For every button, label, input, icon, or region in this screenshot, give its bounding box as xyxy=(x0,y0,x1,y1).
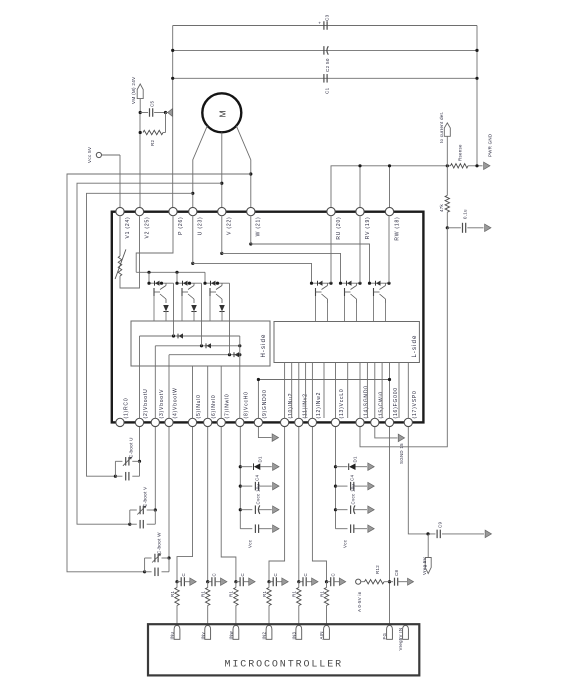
svg-text:(12)INw2: (12)INw2 xyxy=(316,392,322,419)
svg-text:INw: INw xyxy=(229,631,234,640)
svg-text:A 0-5V in: A 0-5V in xyxy=(357,591,362,612)
svg-text:Vreg 5V: Vreg 5V xyxy=(422,557,427,575)
svg-text:(3)VbootV: (3)VbootV xyxy=(159,389,165,419)
svg-text:C-boot W: C-boot W xyxy=(157,532,162,554)
svg-text:(8)VccH0: (8)VccH0 xyxy=(243,391,249,418)
svg-text:(5)INul0: (5)INul0 xyxy=(196,394,202,418)
svg-text:V1 (24): V1 (24) xyxy=(125,217,131,239)
svg-text:Cvcc 10u: Cvcc 10u xyxy=(255,484,260,505)
svg-text:Vreg5V IN: Vreg5V IN xyxy=(398,628,403,651)
svg-text:R1: R1 xyxy=(201,591,206,597)
svg-text:(1)RC0: (1)RC0 xyxy=(124,398,130,419)
svg-text:R1: R1 xyxy=(319,591,324,597)
svg-text:Vcc 5V: Vcc 5V xyxy=(87,146,92,163)
svg-text:(14)SGND0: (14)SGND0 xyxy=(364,385,370,418)
svg-text:D1: D1 xyxy=(257,456,262,462)
svg-text:R1: R1 xyxy=(229,591,234,597)
svg-text:U (23): U (23) xyxy=(198,217,204,236)
svg-text:C4: C4 xyxy=(350,475,355,481)
svg-text:C1: C1 xyxy=(325,87,330,94)
svg-text:C5: C5 xyxy=(150,101,155,107)
svg-text:(16)FG000: (16)FG000 xyxy=(393,387,399,418)
svg-text:to current det.: to current det. xyxy=(439,111,444,143)
svg-text:V2 (25): V2 (25) xyxy=(144,217,150,239)
svg-text:(10)INu2: (10)INu2 xyxy=(288,393,294,419)
svg-text:C: C xyxy=(181,573,186,576)
svg-text:C-boot V: C-boot V xyxy=(143,486,148,507)
svg-text:L-side: L-side xyxy=(412,335,418,358)
svg-text:C2 50: C2 50 xyxy=(325,58,330,72)
svg-text:C: C xyxy=(273,573,278,576)
svg-text:C: C xyxy=(331,573,336,576)
svg-text:Vcc: Vcc xyxy=(343,539,348,548)
svg-text:PWR GND: PWR GND xyxy=(488,134,493,157)
svg-text:MICROCONTROLLER: MICROCONTROLLER xyxy=(225,660,344,671)
svg-text:C9: C9 xyxy=(438,522,443,528)
svg-text:R1: R1 xyxy=(262,591,267,597)
svg-text:(15)CWi0: (15)CWi0 xyxy=(378,391,384,419)
svg-text:(13)VccL0: (13)VccL0 xyxy=(339,389,345,419)
svg-text:SGND 15: SGND 15 xyxy=(399,443,404,464)
svg-text:P (26): P (26) xyxy=(178,217,184,235)
svg-text:IN2: IN2 xyxy=(262,632,267,640)
svg-text:RV (19): RV (19) xyxy=(365,217,371,240)
svg-text:C8: C8 xyxy=(394,570,399,576)
svg-text:R12: R12 xyxy=(375,565,380,574)
svg-text:C3: C3 xyxy=(325,14,330,21)
svg-text:Vcc: Vcc xyxy=(247,539,252,548)
svg-text:R1: R1 xyxy=(292,591,297,597)
svg-text:(17)VSP0: (17)VSP0 xyxy=(412,390,418,418)
svg-text:IN3: IN3 xyxy=(291,632,296,640)
svg-text:Cvcc 10u: Cvcc 10u xyxy=(351,484,356,505)
svg-text:(4)VbootW: (4)VbootW xyxy=(173,387,179,418)
svg-text:(6)INvl0: (6)INvl0 xyxy=(211,395,217,419)
svg-text:R1: R1 xyxy=(170,591,175,597)
svg-text:C: C xyxy=(303,573,308,576)
svg-text:RU (20): RU (20) xyxy=(336,217,342,240)
svg-text:FG: FG xyxy=(382,633,387,640)
svg-text:M: M xyxy=(217,110,227,117)
svg-text:C: C xyxy=(212,573,217,576)
svg-text:INv: INv xyxy=(200,632,205,640)
svg-text:Rsense: Rsense xyxy=(458,144,463,161)
svg-text:V (22): V (22) xyxy=(227,217,233,235)
svg-text:47k: 47k xyxy=(439,204,444,212)
svg-text:INu: INu xyxy=(170,632,175,640)
svg-text:(9)GND00: (9)GND00 xyxy=(262,389,268,418)
svg-text:R2: R2 xyxy=(150,140,155,146)
svg-text:H-side: H-side xyxy=(261,334,267,358)
svg-text:+: + xyxy=(318,22,321,27)
svg-text:C4: C4 xyxy=(254,475,259,481)
svg-text:0.1u: 0.1u xyxy=(463,209,468,219)
svg-text:AIN: AIN xyxy=(319,631,324,639)
svg-text:(7)INwl0: (7)INwl0 xyxy=(225,393,231,418)
svg-text:C: C xyxy=(240,573,245,576)
svg-text:(2)VbootU: (2)VbootU xyxy=(143,389,149,419)
svg-text:RW (18): RW (18) xyxy=(394,217,400,241)
svg-text:VM (M) 24V: VM (M) 24V xyxy=(131,76,136,104)
svg-text:C-boot U: C-boot U xyxy=(129,437,134,458)
svg-text:D1: D1 xyxy=(353,456,358,462)
svg-text:W (21): W (21) xyxy=(256,217,262,237)
